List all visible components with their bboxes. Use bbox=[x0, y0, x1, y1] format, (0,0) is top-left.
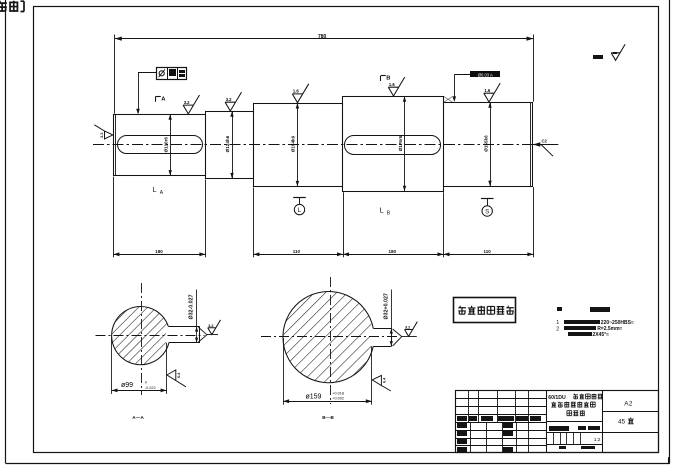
bottom dimension line 2 bbox=[253, 254, 343, 256]
keyway slot on segment 4 bbox=[345, 136, 441, 155]
segment 4-5 step chamfer marks bbox=[444, 96, 453, 102]
title block middle horizontal lines bbox=[546, 421, 602, 423]
section B-B vertical centerline bbox=[330, 277, 332, 404]
section B-B horizontal centerline bbox=[261, 336, 397, 338]
section A-A keyway roughness 3.2 bbox=[208, 320, 221, 335]
svg-text:3.2: 3.2 bbox=[405, 326, 410, 330]
svg-text:Ø176r6: Ø176r6 bbox=[398, 135, 403, 151]
svg-text:45: 45 bbox=[618, 419, 626, 426]
bottom dimension line 1 bbox=[113, 254, 205, 256]
section A-A shaft circle with hatching bbox=[112, 307, 170, 365]
title block left-grid row lines bbox=[456, 398, 547, 400]
tech note line 3 bbox=[568, 332, 592, 336]
section A-A diameter extension lines bbox=[111, 337, 113, 394]
svg-text:Ø154k6: Ø154k6 bbox=[291, 135, 296, 152]
svg-text:L: L bbox=[153, 185, 157, 194]
geometric tolerance frame 2 bbox=[470, 71, 500, 77]
section B-B keyway outline bbox=[373, 328, 391, 330]
roughness symbol 1.6 on segment 5 bbox=[484, 83, 500, 102]
svg-text:+0.002: +0.002 bbox=[332, 397, 344, 401]
bottom extension line 3 bbox=[253, 187, 255, 257]
section B-B keyway face leader bbox=[393, 329, 402, 337]
section B-B keyway width dimension bbox=[391, 290, 393, 347]
segment 5 end chamfer line bbox=[530, 102, 532, 186]
svg-text:1: 1 bbox=[556, 320, 559, 326]
bottom extension line 1 bbox=[113, 177, 115, 258]
svg-text:3.2: 3.2 bbox=[184, 100, 190, 105]
section B-B diameter dimension line bbox=[283, 401, 372, 403]
part name pseudo-CJK line 2 bbox=[551, 402, 556, 407]
section B-B circle outline bbox=[283, 292, 373, 383]
svg-text:Ø155k6: Ø155k6 bbox=[483, 135, 488, 152]
overall length dimension line bbox=[115, 38, 534, 40]
segment 1 diameter dimension line bbox=[170, 114, 172, 175]
svg-text:ø99: ø99 bbox=[121, 382, 133, 389]
svg-text:Ø110r6: Ø110r6 bbox=[164, 137, 169, 153]
section B-B shaft circle with hatching bbox=[283, 291, 374, 382]
geometric tolerance leader 1 bbox=[138, 72, 156, 74]
segment 4 diameter dimension line bbox=[404, 96, 406, 191]
svg-text:60/1DU: 60/1DU bbox=[548, 395, 566, 401]
geometric tolerance frame 1 symbols bbox=[159, 71, 164, 76]
svg-text:3.2: 3.2 bbox=[226, 97, 232, 102]
title block scale cells verticals bbox=[553, 433, 555, 445]
outer border right bbox=[669, 0, 671, 463]
svg-text:-0.022: -0.022 bbox=[145, 386, 156, 390]
title block middle bars bbox=[549, 426, 569, 431]
general roughness pseudo-CJK bar bbox=[593, 55, 603, 59]
section A-A keyway white mask bbox=[166, 327, 200, 343]
segment 3 diameter dimension line bbox=[297, 103, 299, 186]
svg-text:6.4: 6.4 bbox=[177, 372, 181, 378]
shaft segment 2 bbox=[206, 112, 254, 179]
top-left caption pseudo-CJK text bbox=[0, 1, 7, 11]
title block left-grid column lines (lower band) bbox=[470, 422, 472, 453]
svg-text:A—A: A—A bbox=[132, 415, 144, 420]
svg-text:780: 780 bbox=[318, 34, 327, 40]
shaft segment 3 bbox=[254, 104, 343, 187]
section A-A keyway width dimension bbox=[196, 290, 198, 343]
datum symbol L bbox=[293, 197, 306, 199]
svg-text:110: 110 bbox=[484, 249, 492, 254]
title block main verticals bbox=[546, 391, 548, 453]
outer border bottom bbox=[6, 463, 670, 465]
svg-text:Ø124h6: Ø124h6 bbox=[225, 135, 230, 152]
outer border left bbox=[5, 0, 7, 463]
section cut mark B bbox=[380, 76, 382, 81]
part name pseudo-CJK line 3 bbox=[567, 411, 572, 416]
title block left-grid column lines (upper band) bbox=[468, 391, 470, 422]
title block bottom bars bbox=[559, 446, 566, 449]
shaft segment 5 bbox=[444, 103, 533, 187]
overall length extension line left bbox=[114, 35, 116, 114]
shaft segment 1 bbox=[114, 115, 206, 176]
tech notes header bar bbox=[590, 307, 610, 312]
shaft segment 4 bbox=[343, 97, 444, 192]
svg-text:220~250HBS≈: 220~250HBS≈ bbox=[601, 320, 634, 326]
overall length extension line right bbox=[533, 35, 535, 102]
overall dimension arrow left bbox=[115, 37, 122, 41]
section B-B keyway side roughness 6.4 bbox=[372, 375, 391, 391]
geometric tolerance leader 2 bbox=[454, 74, 471, 76]
svg-text:180: 180 bbox=[155, 249, 163, 254]
geometric tolerance frame 1 dividers bbox=[167, 67, 169, 80]
section A-A vertical centerline bbox=[141, 283, 143, 395]
svg-text:L: L bbox=[380, 206, 384, 215]
bottom extension line 5 bbox=[443, 192, 445, 257]
svg-text:2: 2 bbox=[556, 326, 559, 332]
keyway slot on segment 1 bbox=[118, 136, 203, 154]
segment 2 diameter dimension line bbox=[232, 111, 234, 178]
svg-text:1.6: 1.6 bbox=[293, 89, 299, 94]
bottom dimension line 4 bbox=[444, 254, 534, 256]
datum symbol S bbox=[481, 198, 494, 200]
bottom extension line 4 bbox=[343, 192, 345, 257]
svg-text:1.6: 1.6 bbox=[389, 82, 395, 87]
svg-text:+0.018: +0.018 bbox=[332, 391, 344, 395]
svg-text:1:2: 1:2 bbox=[594, 437, 601, 443]
svg-text:110: 110 bbox=[293, 249, 301, 254]
svg-text:2X45°≈: 2X45°≈ bbox=[593, 332, 610, 338]
svg-text:3.2: 3.2 bbox=[100, 133, 104, 138]
right end chamfer leader bbox=[533, 142, 541, 147]
title block header row text bars bbox=[457, 416, 467, 421]
overall dimension arrow right bbox=[527, 37, 534, 41]
roughness symbol 3.2 on segment 1 bbox=[183, 95, 199, 114]
section cut mark A bbox=[155, 97, 157, 102]
shaft centerline bbox=[93, 144, 559, 146]
section A-A keyway outline bbox=[168, 326, 199, 328]
outer border fold tick bbox=[668, 457, 670, 463]
section B-B keyway roughness 3.2 bbox=[405, 322, 418, 337]
svg-text:ø159: ø159 bbox=[306, 393, 322, 400]
svg-text:B: B bbox=[386, 76, 390, 82]
roughness symbol 1.6 on segment 4 bbox=[388, 77, 404, 96]
roughness symbol 1.6 on segment 3 bbox=[292, 84, 308, 103]
svg-text:L: L bbox=[298, 207, 302, 214]
segment 5 diameter dimension line bbox=[490, 102, 492, 186]
segment 1 end-face chamfer line bbox=[115, 114, 117, 175]
section A-A diameter dimension line bbox=[112, 390, 167, 392]
left end-face roughness symbol bbox=[94, 125, 113, 139]
title block signature column bars bbox=[457, 423, 467, 428]
svg-text:Ø0.03 A: Ø0.03 A bbox=[478, 72, 493, 77]
svg-text:C2: C2 bbox=[542, 139, 548, 144]
title block right column row lines bbox=[603, 411, 659, 413]
general roughness symbol bbox=[611, 44, 625, 60]
svg-text:Ø32+0.027: Ø32+0.027 bbox=[383, 293, 389, 319]
tech notes header mark bbox=[557, 307, 562, 311]
svg-text:180: 180 bbox=[389, 249, 397, 254]
note box pseudo-CJK text bbox=[458, 306, 466, 314]
section B-B keyway white mask bbox=[370, 329, 391, 346]
geometric tolerance frame 1 bbox=[157, 68, 187, 80]
section A-A circle outline bbox=[112, 307, 169, 365]
roughness symbol 3.2 on segment 2 bbox=[225, 92, 241, 111]
svg-text:B—B: B—B bbox=[322, 415, 334, 420]
svg-text:S: S bbox=[485, 208, 489, 215]
section A-A keyway face leader bbox=[198, 327, 207, 335]
section B-B diameter extension lines bbox=[283, 338, 285, 405]
bottom extension line 2 bbox=[205, 179, 207, 257]
note box (for learning exchange only) bbox=[454, 298, 516, 323]
svg-text:A2: A2 bbox=[624, 401, 633, 408]
svg-text:1.6: 1.6 bbox=[484, 88, 490, 93]
svg-text:0: 0 bbox=[145, 381, 147, 385]
bottom extension line 6 bbox=[533, 187, 535, 257]
title block outline bbox=[456, 391, 659, 453]
section A-A horizontal centerline bbox=[96, 335, 205, 337]
svg-text:3.2: 3.2 bbox=[208, 324, 213, 328]
svg-text:6.4: 6.4 bbox=[383, 377, 387, 383]
bottom dimension line 3 bbox=[343, 254, 444, 256]
svg-text:Ø32-0.027: Ø32-0.027 bbox=[189, 294, 195, 319]
section A-A keyway side roughness 6.4 bbox=[167, 370, 186, 387]
